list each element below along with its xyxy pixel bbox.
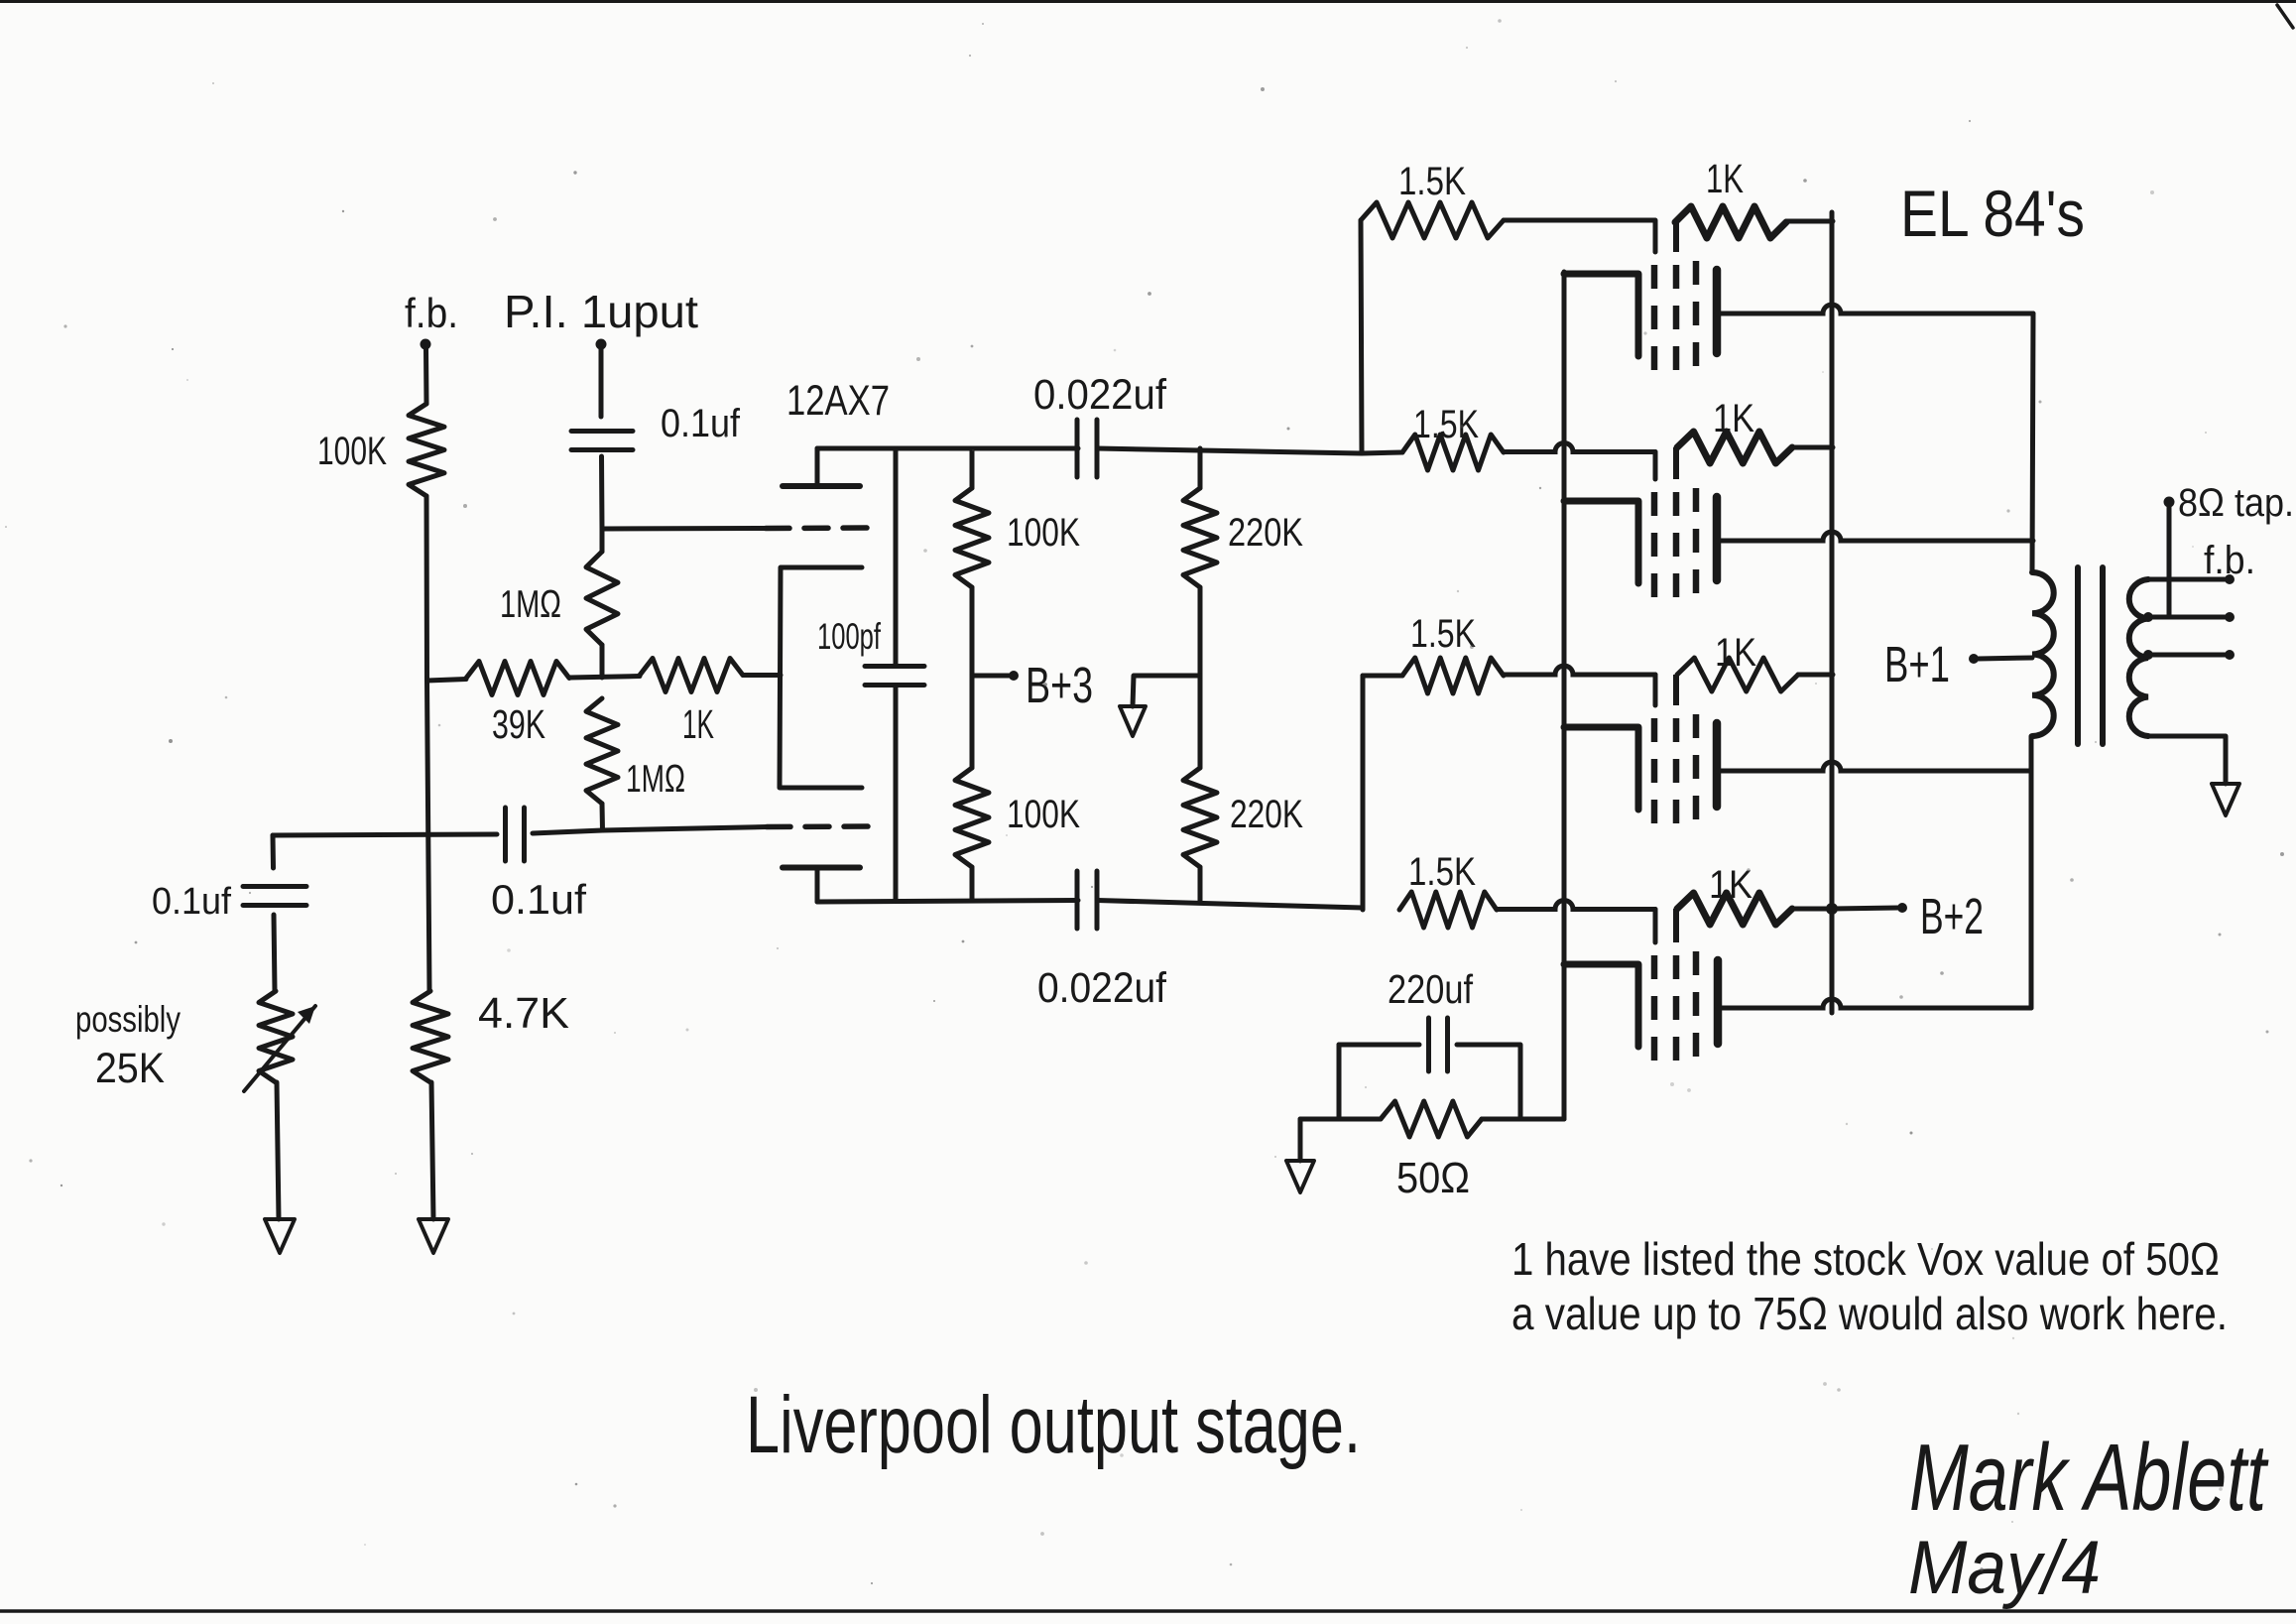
svg-text:Liverpool output stage.: Liverpool output stage. (746, 1380, 1361, 1470)
wire 8-ohm tap vertical (2164, 497, 2175, 618)
resistor R1 1M-ohm upper vertical (586, 552, 618, 645)
svg-text:0.1uf: 0.1uf (152, 881, 231, 923)
wire cap to grid node (599, 456, 605, 529)
wire cap to pot (274, 915, 275, 991)
label B+3 (1026, 657, 1093, 713)
wire 100K to 39K node (424, 496, 430, 681)
capacitor C3 0.1uf (to pot) (243, 887, 306, 906)
label 1M-ohm lower (626, 758, 685, 801)
wire cathode rail vertical (1562, 272, 1567, 1119)
svg-text:1MΩ: 1MΩ (500, 583, 561, 626)
resistor R5 100K plate upper (955, 488, 989, 587)
svg-text:B+2: B+2 (1920, 888, 1984, 944)
wire secondary 8-ohm tap line (2143, 612, 2235, 622)
wire 1M to 39K/1K node (600, 645, 605, 678)
wire 220K mid link (1198, 587, 1203, 768)
wire cathode network left side (1337, 1045, 1342, 1119)
svg-text:220K: 220K (1230, 793, 1303, 836)
resistor R7 220K upper (1183, 488, 1217, 587)
wire 1.5K no.3 to grid (hop over cathode rail) (1504, 666, 1655, 705)
wire f.b. line to 39K (427, 680, 467, 682)
potentiometer VR1 25K vertical (259, 991, 293, 1082)
ground at 220K divider (1120, 706, 1146, 736)
svg-text:50Ω: 50Ω (1396, 1154, 1470, 1202)
label 0.1uf (input cap) (661, 402, 741, 445)
wire 39K node down crossing to 4.7K (427, 681, 430, 991)
svg-text:May/4: May/4 (1908, 1526, 2101, 1610)
svg-text:39K: 39K (492, 701, 545, 747)
wire V4 plate to OT (hop at screen rail) (1718, 999, 2031, 1008)
tube V2 EL84 no.2 (cathode, grids) (1564, 447, 1696, 597)
wire V2 plate to OT (hop at screen rail) (1717, 532, 2033, 541)
wire ground branch at 220K (1133, 676, 1200, 706)
wire V1 plate to OT (hop at screen rail) (1717, 305, 2033, 313)
wire pot to ground (277, 1082, 279, 1219)
tube V2 plate bar (1713, 497, 1722, 580)
tube V1 plate bar (1713, 270, 1722, 353)
tube V4 EL84 no.4 (cathode, grids) (1564, 909, 1696, 1061)
resistor R3 1K horizontal (640, 659, 743, 692)
resistor R2 39K horizontal (466, 662, 569, 695)
capacitor C5 0.022uf (lower coupling) (1077, 871, 1097, 929)
tube U1 12AX7 label (786, 377, 890, 425)
wire 100pf bottom lead (894, 686, 899, 901)
wire 1K no.3 to rail (1798, 673, 1833, 678)
wire 1K no.2 to rail (1792, 445, 1833, 450)
label 100K lower (1007, 793, 1080, 836)
resistor R14 1K screen (EL84 no.3) (1677, 658, 1798, 691)
label 100K (317, 430, 387, 473)
wire grid1 dashed segment (12AX7 grid 1) (766, 525, 875, 531)
svg-text:25K: 25K (95, 1045, 165, 1092)
node B+3 stub and dot (972, 671, 1019, 681)
node B+1 stub and dot (1969, 654, 2032, 664)
label 0.1uf (left cap) (152, 881, 231, 923)
wire lower coupling to 1.5K pair (1097, 901, 1363, 909)
wire top scan edge line (0, 2, 2296, 29)
wire long horizontal (to tone cap) (273, 834, 497, 835)
node P.I. input terminal dot (596, 339, 607, 350)
wire secondary third tap (2143, 650, 2235, 660)
label 0.022uf lower (1037, 964, 1167, 1012)
wire secondary top tap (2148, 574, 2235, 584)
wire 220K lower bottom lead (1198, 867, 1203, 902)
label 0.022uf upper (1033, 371, 1167, 419)
tube V1 EL84 no.1 (cathode, grids) (1564, 222, 1696, 370)
resistor R9 1.5K grid (EL84 no.1) (1361, 202, 1504, 238)
node grid1 junction to 1M (600, 529, 605, 552)
wire 1.5K no.2 to grid (hop over cathode rail) (1504, 443, 1655, 480)
label 1K no.1 (1706, 156, 1744, 201)
svg-text:100K: 100K (1007, 511, 1080, 555)
label 100K upper (1007, 511, 1080, 555)
svg-text:0.022uf: 0.022uf (1037, 964, 1167, 1012)
tube U1 lower plate (783, 865, 860, 871)
wire cathode network bottom right (1482, 1117, 1564, 1122)
svg-text:220uf: 220uf (1388, 966, 1474, 1012)
wire 100pf top lead (894, 448, 899, 666)
wire bottom scan edge line (0, 1609, 2296, 1613)
svg-text:P.I. 1uput: P.I. 1uput (504, 286, 698, 337)
svg-text:220K: 220K (1228, 511, 1303, 555)
svg-text:4.7K: 4.7K (478, 989, 569, 1038)
wire B+3 node to 100K lower (970, 676, 975, 768)
capacitor C7 220uf cathode bypass (1429, 1018, 1448, 1071)
label 220K lower (1230, 793, 1303, 836)
wire 100K upper to B+3 node (970, 587, 975, 676)
svg-text:1K: 1K (1709, 863, 1752, 907)
svg-text:B+1: B+1 (1884, 636, 1950, 692)
wire P.I. input down to cap (599, 349, 604, 417)
resistor R16 1K screen (EL84 no.4) (1677, 893, 1792, 925)
wire upper plate to coupling cap (817, 446, 1078, 451)
svg-text:1 have listed the stock Vox va: 1 have listed the stock Vox value of 50Ω (1511, 1233, 2220, 1285)
node f.b. label (feedback input) (405, 290, 458, 336)
tube V4 plate bar (1714, 960, 1723, 1044)
resistor R6 100K plate lower (955, 768, 989, 867)
wire 39K to 1K (569, 677, 640, 679)
tube V3 plate bar (1713, 723, 1722, 807)
label B+1 (1884, 636, 1950, 692)
wire 1M lower to coupling wire (600, 804, 606, 830)
capacitor C1 0.1uf coupling (input) (571, 432, 633, 450)
svg-text:1K: 1K (1713, 397, 1754, 440)
wire 100K upper top lead (970, 448, 975, 488)
wire cathode network top right (1457, 1045, 1520, 1119)
label 220uf (1388, 966, 1474, 1012)
resistor R13 1.5K grid (EL84 no.3) (1402, 658, 1504, 693)
resistor R4 1M-ohm lower vertical (586, 698, 618, 804)
svg-text:0.1uf: 0.1uf (661, 402, 741, 445)
ground at secondary (2212, 784, 2239, 815)
label 1.5K no.4 (1408, 850, 1476, 894)
label 220K upper (1228, 511, 1303, 555)
label 1K no.4 (1709, 863, 1752, 907)
wire lower plate to coupling cap (817, 901, 1078, 903)
resistor R12 1K screen (EL84 no.2) (1677, 432, 1792, 463)
wire 1K no.4 to rail junction dot (1792, 903, 1838, 915)
label 50-ohm (1396, 1154, 1470, 1202)
tube U1 upper cathode bracket (780, 567, 862, 788)
node P.I. Input label (504, 286, 698, 337)
label EL 84's (1900, 177, 2085, 250)
svg-text:Mark Ablett: Mark Ablett (1909, 1425, 2268, 1531)
wire coupling node to 1.5K no.2 (1362, 452, 1402, 453)
label 8-ohm tap (2178, 481, 2294, 525)
wire OT lower vertical (2029, 736, 2034, 1008)
svg-text:1.5K: 1.5K (1410, 612, 1476, 656)
signature date May/4 (1908, 1526, 2101, 1610)
label 1.5K no.2 (1413, 403, 1479, 446)
wire upper coupling to 1.5K pair (1097, 448, 1362, 453)
wire 1.5K no.4 to grid (hop over cathode rail) (1497, 901, 1655, 943)
label 100pf (817, 616, 881, 657)
label 39K (492, 701, 545, 747)
note line 2 (1511, 1288, 2228, 1339)
transformer T1 primary winding (2032, 572, 2054, 736)
ground under 4.7K (419, 1219, 448, 1253)
label B+2 (1920, 888, 1984, 944)
svg-text:12AX7: 12AX7 (786, 377, 890, 425)
svg-text:1K: 1K (682, 701, 714, 747)
wire secondary bottom to ground (2148, 736, 2226, 784)
title Liverpool output stage (746, 1380, 1361, 1470)
wire f.b. vertical down to 100K (423, 349, 429, 404)
svg-text:1MΩ: 1MΩ (626, 758, 685, 801)
capacitor C2 0.1uf (series in long wire) (506, 808, 525, 861)
transformer T1 secondary winding (2129, 579, 2148, 736)
node f.b. terminal dot (421, 339, 431, 350)
wire cap to grid2 node (533, 827, 767, 834)
wire lower plate lead (815, 868, 820, 903)
ground under pot (265, 1219, 295, 1253)
label 1K no.3 (1715, 631, 1756, 675)
wire grid1 horizontal (602, 526, 766, 532)
label f.b. (secondary) (2204, 539, 2255, 582)
svg-text:f.b.: f.b. (2204, 539, 2255, 582)
wire 1.5K no.1 to grid (1504, 220, 1655, 252)
wire upper plate lead (815, 448, 820, 486)
wire left rail 1.5K pair upper (1361, 220, 1362, 453)
svg-text:f.b.: f.b. (405, 290, 458, 336)
resistor R10 1K screen (EL84 no.1) (1675, 206, 1786, 238)
wire 4.7K to ground (431, 1082, 433, 1219)
ground at bias network (1286, 1161, 1314, 1192)
svg-text:EL 84's: EL 84's (1900, 177, 2085, 250)
label 1K (tail feed) (682, 701, 714, 747)
wire rail to 1.5K no.3 (1363, 674, 1402, 679)
signature Mark Ablett (1909, 1425, 2268, 1531)
svg-text:possibly: possibly (75, 999, 181, 1040)
wire V3 plate to OT (hop at screen rail) (1717, 762, 2031, 771)
capacitor C6 100pf (865, 667, 924, 686)
tube V3 EL84 no.3 (cathode, grids) (1564, 675, 1696, 823)
label 1M-ohm upper (500, 583, 561, 626)
svg-text:0.022uf: 0.022uf (1033, 371, 1167, 419)
wire left branch down (271, 835, 277, 868)
label possibly (75, 999, 181, 1040)
wire screen rail vertical (1830, 212, 1835, 1013)
svg-text:1K: 1K (1715, 631, 1756, 675)
wire grid2 dashed segment (12AX7 grid 2) (767, 823, 875, 829)
svg-text:1K: 1K (1706, 156, 1744, 201)
wire cathode network top (1339, 1043, 1419, 1048)
svg-text:1.5K: 1.5K (1398, 160, 1466, 203)
resistor R8 220K lower (1183, 768, 1217, 867)
wire 100K lower bottom lead (970, 867, 975, 901)
resistor R15 1.5K grid (EL84 no.4) (1399, 892, 1497, 928)
svg-text:B+3: B+3 (1026, 657, 1093, 713)
label 1.5K no.1 (1398, 160, 1466, 203)
svg-text:0.1uf: 0.1uf (491, 876, 586, 923)
note line 1 (1511, 1233, 2220, 1285)
wire 220K upper top lead (1198, 448, 1203, 488)
wire 1K no.1 to rail (1786, 219, 1833, 224)
wire ground stub at bias network (1298, 1119, 1303, 1161)
resistor R17 50-ohm cathode bias (1381, 1101, 1482, 1137)
wire left rail 1.5K pair lower (1361, 676, 1366, 910)
label 1K no.2 (1713, 397, 1754, 440)
tube U1 upper plate (783, 483, 860, 489)
node B+2 stub and dot (1832, 903, 1907, 913)
capacitor C4 0.022uf (upper coupling) (1077, 420, 1097, 477)
svg-text:8Ω tap.: 8Ω tap. (2178, 481, 2294, 525)
potentiometer arrow (244, 1006, 315, 1091)
wire OT upper vertical (2032, 313, 2033, 572)
resistor R-fb 100K vertical (409, 404, 444, 496)
svg-text:100pf: 100pf (817, 616, 881, 657)
label 0.1uf (series cap) (491, 876, 586, 923)
transformer T1 core laminations (2078, 567, 2103, 744)
svg-text:100K: 100K (1007, 793, 1080, 836)
svg-text:100K: 100K (317, 430, 387, 473)
resistor R-tail 4.7K vertical (413, 991, 448, 1082)
wire cathode network bottom left (1300, 1117, 1381, 1122)
wire 1K to cathode bracket (743, 673, 781, 678)
resistor R11 1.5K grid (EL84 no.2) (1402, 435, 1504, 470)
svg-text:1.5K: 1.5K (1413, 403, 1479, 446)
label 4.7K (478, 989, 569, 1038)
label 25K (95, 1045, 165, 1092)
svg-text:a value up to 75Ω would also w: a value up to 75Ω would also work here. (1511, 1288, 2228, 1339)
svg-text:1.5K: 1.5K (1408, 850, 1476, 894)
label 1.5K no.3 (1410, 612, 1476, 656)
